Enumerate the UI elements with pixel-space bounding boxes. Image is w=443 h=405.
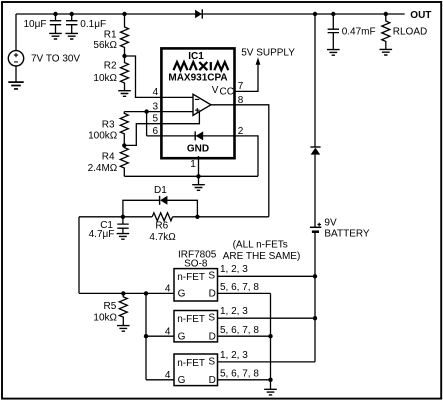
- svg-text:(ALL n-FETs: (ALL n-FETs: [233, 240, 288, 251]
- svg-text:10kΩ: 10kΩ: [93, 73, 117, 84]
- ground (source): [8, 82, 23, 89]
- IC U1 MAX931CPA box: [161, 48, 234, 158]
- svg-text:BATTERY: BATTERY: [324, 229, 370, 240]
- svg-text:MAX931CPA: MAX931CPA: [168, 73, 227, 84]
- diode D2 (battery bus): [310, 146, 320, 148]
- wire Q3 source: [218, 361, 316, 363]
- wire gate bus vertical: [145, 293, 147, 379]
- svg-text:4.7kΩ: 4.7kΩ: [149, 232, 176, 243]
- svg-text:R5: R5: [104, 301, 117, 312]
- svg-text:4: 4: [165, 284, 171, 295]
- svg-text:R1: R1: [104, 29, 117, 40]
- svg-text:IC1: IC1: [188, 51, 204, 62]
- node dot (cap 0.1uF): [70, 12, 74, 16]
- wire top rail: [16, 13, 405, 15]
- resistor R1 56k: [121, 14, 129, 56]
- node dot (RLOAD): [384, 12, 388, 16]
- wire pin3 from R3 top: [124, 111, 193, 113]
- svg-text:G: G: [178, 375, 186, 386]
- node dot (gate bus row2): [144, 334, 148, 338]
- svg-text:4: 4: [153, 87, 159, 98]
- svg-text:56kΩ: 56kΩ: [93, 40, 117, 51]
- svg-text:4: 4: [165, 370, 171, 381]
- svg-text:S: S: [208, 313, 215, 324]
- svg-text:5: 5: [152, 114, 158, 125]
- svg-text:n-FET: n-FET: [177, 358, 205, 369]
- svg-text:0.1μF: 0.1μF: [80, 19, 106, 30]
- wire gate line row2: [146, 335, 174, 337]
- battery BT1 9V: [310, 226, 321, 228]
- svg-text:5, 6, 7, 8: 5, 6, 7, 8: [220, 368, 259, 379]
- resistor R6 4.7k: [152, 213, 172, 221]
- svg-text:n-FET: n-FET: [177, 272, 205, 283]
- wire pin6 to pin2 through IC: [147, 136, 258, 176]
- node dot (drain bus row2): [268, 334, 272, 338]
- svg-text:D: D: [209, 331, 216, 342]
- node dot (battery bus top): [313, 12, 317, 16]
- svg-text:1, 2, 3: 1, 2, 3: [220, 350, 248, 361]
- transistor Q3 n-FET box: [174, 354, 218, 386]
- op-amp comparator (inside IC1): [193, 94, 211, 115]
- svg-text:LOAD: LOAD: [400, 26, 427, 37]
- svg-text:S: S: [208, 271, 215, 282]
- node dot (R1 top): [122, 12, 126, 16]
- svg-text:1: 1: [190, 159, 196, 170]
- svg-text:CC: CC: [220, 87, 234, 98]
- capacitor C1 4.7uF: [117, 217, 128, 233]
- wire gate line row1: [79, 292, 174, 294]
- diode D1: [159, 196, 161, 205]
- node dot (drain bus row3): [268, 378, 272, 382]
- svg-text:4.7μF: 4.7μF: [89, 229, 115, 240]
- resistor RLOAD: [382, 14, 390, 49]
- ground (R2): [118, 91, 131, 97]
- wire drain bus vertical: [270, 293, 272, 389]
- wire battery bus middle: [314, 155, 316, 228]
- node dot (Q2 source on bus): [313, 316, 317, 320]
- wire comparator output pin8: [211, 105, 269, 217]
- svg-text:0.47mF: 0.47mF: [342, 26, 376, 37]
- svg-text:10μF: 10μF: [24, 19, 47, 30]
- wire Q3 drain: [218, 379, 271, 381]
- wire Q2 drain: [218, 335, 271, 337]
- svg-text:R: R: [393, 26, 400, 37]
- svg-text:5V SUPPLY: 5V SUPPLY: [241, 48, 295, 59]
- voltage source V1 7V TO 30V: [8, 51, 23, 66]
- capacitor 0.47mF: [328, 14, 339, 49]
- resistor R5 10k: [119, 293, 127, 325]
- svg-text:4: 4: [165, 326, 171, 337]
- wire pin3 node down to pin6 line: [146, 112, 148, 136]
- node dot (R1/R2 junction): [122, 54, 126, 58]
- svg-text:3: 3: [152, 102, 158, 113]
- wire source to ground: [15, 66, 17, 82]
- svg-text:R4: R4: [102, 152, 115, 163]
- svg-text:7V TO 30V: 7V TO 30V: [31, 53, 80, 64]
- wire pin4 route from R1/R2 junction: [125, 56, 194, 97]
- svg-text:R3: R3: [102, 119, 115, 130]
- transistor Q1 n-FET box: [174, 269, 218, 301]
- svg-text:7: 7: [238, 81, 244, 92]
- node dot (gate bus top): [144, 291, 148, 295]
- wire ground line (R4 / pin1 / pin2): [124, 175, 258, 177]
- svg-text:2.4MΩ: 2.4MΩ: [88, 163, 118, 174]
- svg-text:1, 2, 3: 1, 2, 3: [220, 264, 248, 275]
- node dot (Q1 source on bus): [313, 274, 317, 278]
- svg-text:GND: GND: [187, 143, 209, 154]
- svg-text:10kΩ: 10kΩ: [93, 312, 117, 323]
- ground (drain bus): [264, 389, 277, 395]
- svg-text:R6: R6: [155, 220, 168, 231]
- node dot (pin1 ground): [196, 174, 200, 178]
- wire gate line row3: [146, 379, 174, 381]
- svg-text:D: D: [209, 375, 216, 386]
- wire pin5 route from R3/R4 junction: [124, 112, 199, 145]
- svg-text:ARE THE SAME): ARE THE SAME): [223, 251, 301, 262]
- svg-text:1, 2, 3: 1, 2, 3: [220, 306, 248, 317]
- node dot (cap 10uF): [53, 12, 57, 16]
- svg-text:100kΩ: 100kΩ: [88, 130, 118, 141]
- transistor Q2 n-FET box: [174, 311, 218, 342]
- wire left drop to source: [15, 14, 17, 51]
- node dot (R5 top): [121, 291, 125, 295]
- node dot (0.47mF cap): [331, 12, 335, 16]
- svg-text:S: S: [208, 356, 215, 367]
- MAXIM logo: [174, 62, 229, 70]
- node dot (R3/R4 junction): [122, 143, 126, 147]
- svg-text:9V: 9V: [324, 217, 337, 228]
- node dot (pin3 wire): [144, 109, 148, 113]
- svg-text:D1: D1: [154, 185, 167, 196]
- svg-text:5, 6, 7, 8: 5, 6, 7, 8: [220, 282, 259, 293]
- wire D1 branch: [123, 200, 197, 217]
- node dot (D1 right): [195, 215, 199, 219]
- svg-text:D: D: [209, 289, 216, 300]
- svg-text:G: G: [178, 331, 186, 342]
- wire battery bus lower: [314, 232, 316, 362]
- wire pin1 down: [198, 156, 200, 176]
- node dot (C1/D1 left): [121, 215, 125, 219]
- ground (pin1): [198, 176, 200, 184]
- ground (R5): [117, 326, 130, 332]
- capacitor 0.1uF: [66, 14, 77, 33]
- wire pin7 to 5V supply arrow: [235, 64, 259, 92]
- diode D2 (top rail, series): [201, 9, 203, 18]
- resistor R3 100k: [120, 112, 128, 146]
- wire Q2 source: [218, 317, 316, 319]
- svg-text:G: G: [178, 289, 186, 300]
- diode internal (IC1): [194, 131, 196, 140]
- wire R6/C1 rail: [79, 216, 269, 218]
- svg-text:V: V: [212, 85, 219, 96]
- arrow head (5V supply): [256, 57, 261, 64]
- resistor R4 2.4M: [120, 145, 128, 176]
- svg-text:5, 6, 7, 8: 5, 6, 7, 8: [220, 325, 259, 336]
- capacitor 10uF: [50, 14, 61, 33]
- wire Q1 source: [218, 275, 316, 277]
- wire Q1 drain: [218, 292, 271, 294]
- svg-text:OUT: OUT: [410, 10, 431, 21]
- wire left vertical down to gate line: [78, 217, 80, 294]
- svg-text:R2: R2: [104, 60, 117, 71]
- wire battery bus upper: [314, 14, 316, 147]
- svg-text:n-FET: n-FET: [177, 314, 205, 325]
- resistor R2 10k: [121, 56, 129, 90]
